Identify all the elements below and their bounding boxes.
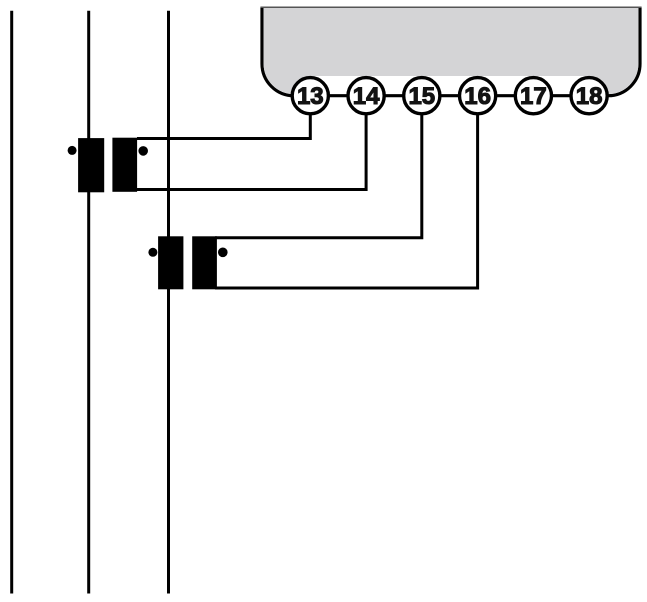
svg-text:18: 18	[576, 83, 603, 110]
svg-text:17: 17	[520, 83, 547, 110]
svg-text:15: 15	[408, 83, 435, 110]
svg-text:16: 16	[464, 83, 491, 110]
svg-text:13: 13	[297, 83, 324, 110]
svg-text:14: 14	[353, 83, 380, 110]
